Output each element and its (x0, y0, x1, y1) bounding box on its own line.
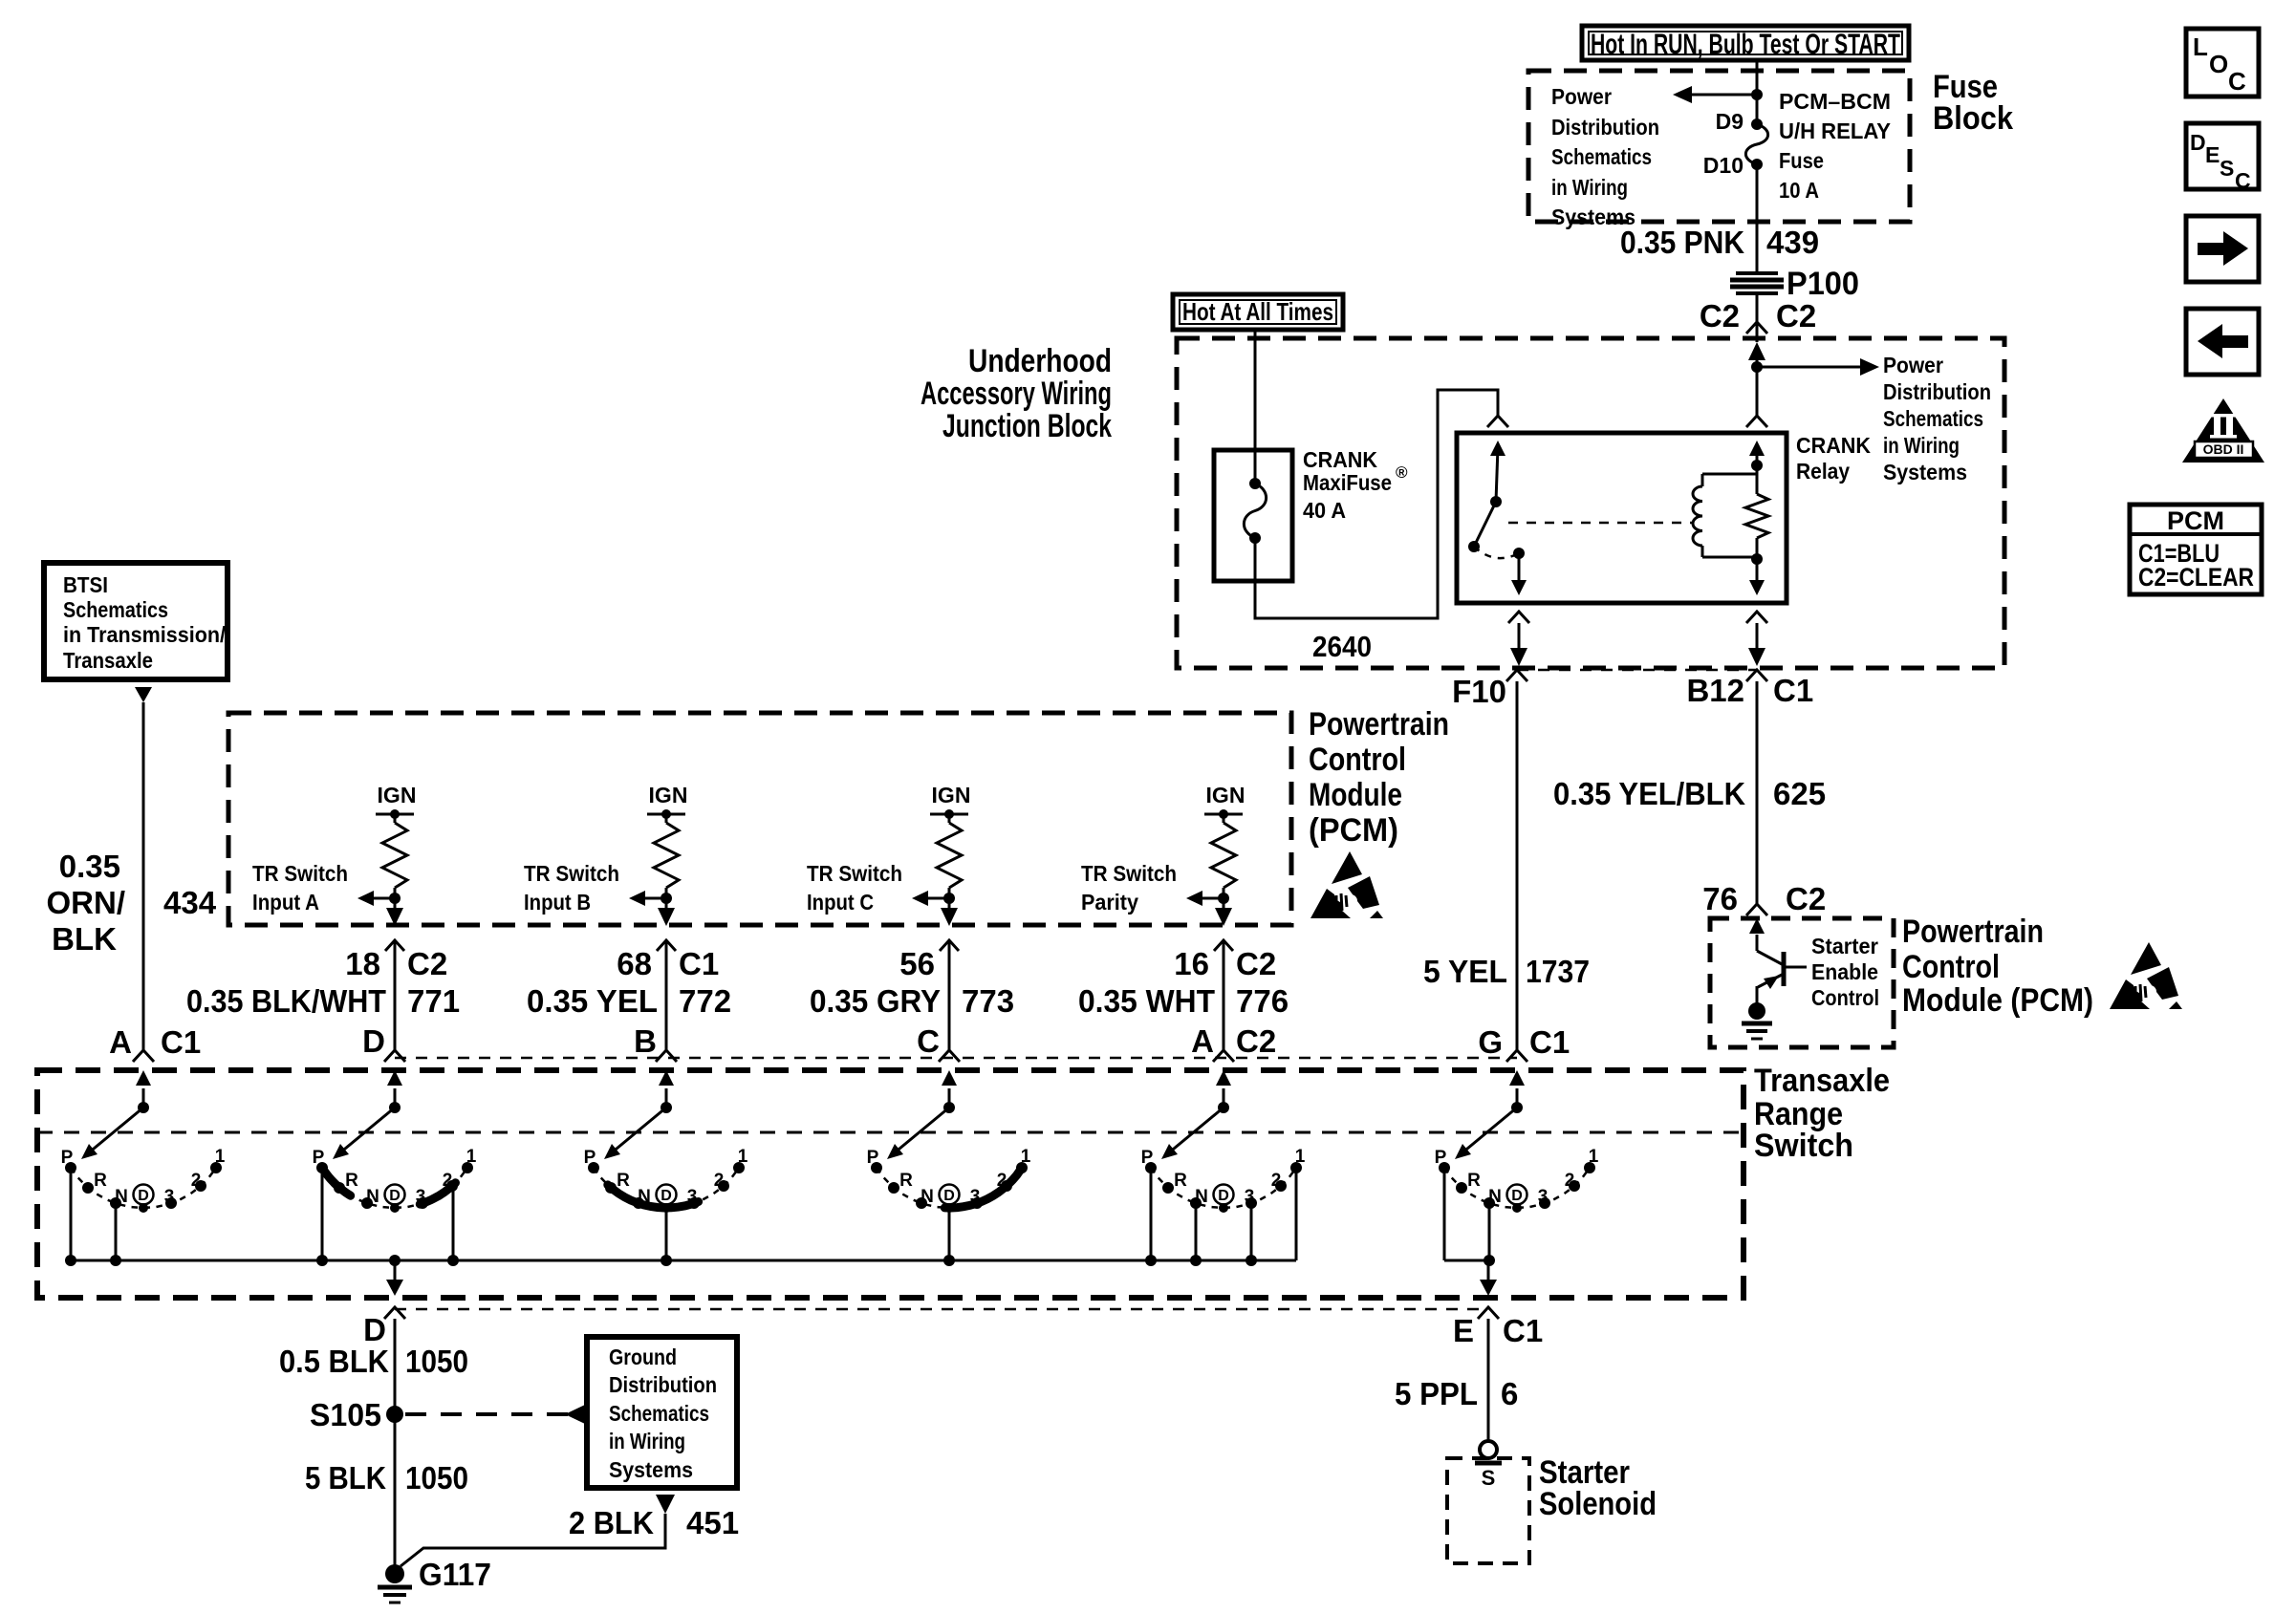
svg-text:in Wiring: in Wiring (1883, 433, 1960, 458)
svg-text:Transaxle: Transaxle (1754, 1063, 1890, 1099)
relay switch output contact (1511, 548, 1527, 595)
svg-text:Control: Control (1309, 742, 1406, 778)
svg-text:B: B (634, 1023, 657, 1059)
relay switch throw dashed arc (1474, 547, 1519, 558)
svg-text:Systems: Systems (609, 1457, 693, 1482)
wire C out of PCM (941, 898, 958, 926)
pullup resistor IGN column A (1204, 783, 1245, 898)
svg-text:Switch: Switch (1754, 1128, 1853, 1164)
svg-text:C1: C1 (1529, 1024, 1570, 1060)
wire F10 to transaxle switch (1516, 681, 1519, 1050)
svg-text:56: 56 (899, 946, 935, 981)
svg-text:in Wiring: in Wiring (1551, 175, 1628, 200)
label Powertrain Control Module (PCM) right (1902, 914, 2093, 1019)
connector E chevron bottom (1478, 1307, 1499, 1319)
svg-text:in Wiring: in Wiring (609, 1429, 685, 1453)
svg-text:Transaxle: Transaxle (63, 648, 153, 673)
svg-text:2: 2 (1565, 1171, 1575, 1191)
svg-text:R: R (617, 1171, 630, 1191)
connector terminal A chevron (1213, 1050, 1234, 1062)
svg-text:776: 776 (1236, 983, 1289, 1019)
svg-text:1: 1 (466, 1147, 477, 1167)
svg-text:S: S (1482, 1466, 1496, 1490)
svg-text:6: 6 (1501, 1376, 1518, 1411)
switch G bus wire (1444, 1259, 1488, 1262)
rotary switch C (867, 1070, 1031, 1266)
svg-text:0.35 PNK: 0.35 PNK (1620, 225, 1744, 260)
switch inner thin dashed rail (37, 1131, 1744, 1134)
connector pin 56 chevron (940, 940, 959, 951)
wire B out of PCM (658, 898, 675, 926)
svg-text:Underhood: Underhood (968, 343, 1112, 379)
svg-text:625: 625 (1773, 776, 1826, 811)
connector C2 chevron (1746, 322, 1767, 334)
svg-text:L: L (2193, 32, 2208, 61)
svg-text:Distribution: Distribution (1551, 115, 1659, 140)
wire 0.35 YEL 772 (665, 940, 668, 1050)
legend PCM connector colors (2130, 505, 2262, 594)
node junction fuse feed (1751, 89, 1763, 100)
svg-text:Module (PCM): Module (PCM) (1902, 982, 2093, 1019)
wire 0.35 BLK/WHT 771 (394, 940, 397, 1050)
svg-text:TR Switch: TR Switch (524, 861, 619, 886)
wire arrow to power distribution (left) (1673, 86, 1757, 103)
rotary switch A2 (1141, 1070, 1306, 1266)
wire label 0.35 YEL 772 (527, 983, 731, 1019)
label TR Switch Parity (1081, 861, 1177, 915)
arrow TR Switch Input C (912, 891, 949, 906)
svg-text:R: R (94, 1171, 107, 1191)
connector terminal D chevron (384, 1050, 405, 1062)
svg-text:D: D (1511, 1188, 1523, 1204)
label E C1 (1453, 1313, 1543, 1348)
svg-text:0.35 BLK/WHT: 0.35 BLK/WHT (186, 983, 386, 1019)
wire 0.35 GRY 773 (948, 940, 951, 1050)
fuse CRANK MaxiFuse element (1244, 478, 1266, 544)
rotary switch D (313, 1070, 477, 1266)
svg-text:PCM: PCM (2167, 506, 2224, 535)
svg-text:C2: C2 (407, 946, 447, 981)
svg-text:P100: P100 (1787, 266, 1859, 302)
pullup resistor IGN column C (930, 783, 970, 898)
icon LOC box (2186, 29, 2259, 97)
svg-text:Accessory Wiring: Accessory Wiring (921, 376, 1112, 412)
wire label 5 YEL 1737 (1423, 954, 1590, 989)
svg-text:1: 1 (215, 1147, 226, 1167)
svg-text:R: R (1174, 1171, 1187, 1191)
ground PCM internal (1742, 1002, 1772, 1039)
rotary switch G (1435, 1070, 1599, 1266)
svg-text:C2: C2 (1786, 881, 1826, 916)
relay coil (1693, 474, 1757, 557)
wire label 5 PPL 6 (1395, 1376, 1518, 1411)
svg-text:CRANK: CRANK (1796, 433, 1871, 458)
svg-text:3: 3 (1538, 1187, 1549, 1207)
node TR switch Parity tap (1218, 893, 1229, 904)
underhood junction block dashed box (1177, 338, 2004, 668)
wire C2 into junction block (1756, 322, 1759, 342)
svg-text:B12: B12 (1686, 673, 1744, 708)
svg-text:D: D (138, 1188, 149, 1204)
svg-text:5 PPL: 5 PPL (1395, 1376, 1478, 1411)
wire D out of PCM (386, 898, 403, 926)
svg-text:1: 1 (1589, 1147, 1599, 1167)
label 76 C2 (1702, 881, 1826, 916)
arrow TR Switch Input B (629, 891, 666, 906)
ESD sensitivity symbol (lower PCM) (2110, 942, 2182, 1009)
wire fuse block vertical (1756, 60, 1759, 124)
ground distribution reference box (587, 1337, 737, 1488)
svg-text:2 BLK: 2 BLK (569, 1505, 654, 1540)
wire label 0.35 ORN/BLK 434 (47, 849, 217, 957)
svg-text:D: D (389, 1188, 401, 1204)
connector pin 68 chevron (657, 940, 676, 951)
svg-text:D10: D10 (1703, 153, 1744, 178)
label Powertrain Control Module (PCM) upper (1309, 706, 1449, 849)
svg-text:1737: 1737 (1526, 954, 1590, 989)
fuse CRANK MaxiFuse box (1214, 450, 1292, 581)
connector A C1 chevron (133, 1050, 154, 1062)
svg-text:ORN/: ORN/ (47, 885, 126, 920)
connector rail thin dashed bottom (395, 1308, 1488, 1311)
svg-text:C2: C2 (1776, 298, 1816, 334)
icon OBD II triangle (2182, 398, 2264, 463)
wire label 0.35 WHT 776 (1078, 983, 1289, 1019)
label pin 68 C1 (617, 946, 719, 981)
wire label 0.35 YEL/BLK 625 (1553, 776, 1826, 811)
svg-text:Input B: Input B (524, 890, 591, 915)
svg-text:R: R (1467, 1171, 1481, 1191)
svg-text:18: 18 (345, 946, 380, 981)
icon left-arrow box (2186, 309, 2259, 375)
svg-text:C: C (917, 1023, 940, 1059)
ground G117 (378, 1557, 491, 1603)
svg-text:773: 773 (962, 983, 1014, 1019)
svg-text:N: N (366, 1187, 379, 1207)
label box Hot In RUN, Bulb Test Or START (1582, 26, 1909, 60)
svg-text:Junction Block: Junction Block (942, 408, 1112, 444)
svg-text:Schematics: Schematics (1883, 406, 1983, 431)
wire E to starter solenoid (1487, 1319, 1490, 1441)
svg-text:1: 1 (1021, 1147, 1031, 1167)
wire 2 BLK 451 (401, 1514, 665, 1566)
connector terminal B chevron (656, 1050, 677, 1062)
svg-text:N: N (921, 1187, 934, 1207)
svg-text:PCM–BCM: PCM–BCM (1779, 89, 1891, 114)
wire fuse block to P100 (1756, 164, 1759, 272)
label Fuse Block (1933, 69, 2013, 137)
connector 76 C2 chevron (1746, 904, 1767, 915)
connector B12 chevron (1746, 670, 1767, 681)
fuse block dashed box (1528, 71, 1910, 222)
connector D chevron bottom (384, 1307, 405, 1319)
svg-text:Module: Module (1309, 777, 1402, 813)
svg-text:BTSI: BTSI (63, 572, 108, 597)
svg-text:F10: F10 (1452, 674, 1506, 709)
svg-text:439: 439 (1766, 225, 1819, 260)
svg-text:Parity: Parity (1081, 890, 1138, 915)
svg-text:2: 2 (191, 1171, 202, 1191)
svg-text:0.35: 0.35 (59, 849, 120, 884)
svg-text:3: 3 (1245, 1187, 1255, 1207)
svg-text:2: 2 (714, 1171, 725, 1191)
svg-text:3: 3 (164, 1187, 175, 1207)
svg-text:C2: C2 (1236, 1023, 1276, 1059)
wire P100 to C2 connector (1756, 293, 1759, 322)
label TR Switch Input A (252, 861, 348, 915)
svg-text:TR Switch: TR Switch (807, 861, 902, 886)
svg-text:Schematics: Schematics (609, 1401, 709, 1426)
svg-text:R: R (899, 1171, 913, 1191)
svg-text:CRANK: CRANK (1303, 447, 1377, 472)
transistor Q1 starter enable (1757, 951, 1807, 989)
starter solenoid dashed box (1447, 1458, 1529, 1563)
wire maxifuse to crank relay (1255, 390, 1498, 618)
svg-text:E: E (2205, 142, 2220, 167)
label Underhood Accessory Wiring Junction Block (921, 343, 1112, 444)
node TR switch Input C tap (943, 893, 955, 904)
svg-text:Solenoid: Solenoid (1539, 1486, 1657, 1522)
svg-text:R: R (345, 1171, 358, 1191)
arrow up at junction block entry (1748, 342, 1765, 367)
label A C1 (109, 1024, 201, 1060)
svg-text:451: 451 (686, 1505, 739, 1540)
arrow TR Switch Parity (1186, 891, 1224, 906)
svg-text:S: S (2220, 156, 2234, 181)
svg-text:Hot In RUN, Bulb Test Or START: Hot In RUN, Bulb Test Or START (1591, 29, 1900, 60)
svg-text:Input C: Input C (807, 890, 874, 915)
dashed reference S105 to ground distribution (405, 1405, 585, 1424)
rotary switch B (584, 1070, 748, 1266)
wire D to G117 (394, 1319, 397, 1568)
relay mechanical link dashed (1508, 522, 1694, 525)
svg-text:Control: Control (1811, 985, 1879, 1010)
svg-text:D: D (363, 1312, 386, 1347)
wire label 5 BLK 1050 (305, 1460, 468, 1496)
svg-text:Power: Power (1551, 84, 1612, 109)
wire BTSI to transaxle switch (142, 702, 145, 1050)
svg-text:IGN: IGN (1206, 783, 1245, 807)
svg-text:Hot At All Times: Hot At All Times (1182, 297, 1333, 326)
svg-text:434: 434 (163, 885, 217, 920)
svg-text:C: C (2228, 67, 2246, 96)
relay CRANK box (1457, 433, 1787, 603)
connector pin 16 chevron (1214, 940, 1233, 951)
wire A out of PCM (1215, 898, 1232, 926)
label terminal D (362, 1023, 385, 1059)
svg-text:Block: Block (1933, 100, 2013, 137)
svg-text:IGN: IGN (378, 783, 417, 807)
node S105 splice (310, 1397, 403, 1432)
svg-text:Control: Control (1902, 949, 2000, 985)
wire label 0.35 GRY 773 (810, 983, 1014, 1019)
wire arrow to power distribution schematics (right) (1757, 358, 1879, 376)
svg-text:D: D (661, 1188, 672, 1204)
svg-text:76: 76 (1702, 881, 1738, 916)
transaxle range switch dashed box (37, 1070, 1744, 1298)
svg-text:G: G (1478, 1024, 1503, 1060)
wire B12 to PCM (1756, 681, 1759, 904)
label G C1 (1478, 1024, 1570, 1060)
svg-text:Distribution: Distribution (609, 1372, 717, 1397)
arrow from ground distribution box (656, 1495, 675, 1514)
switch D output arrow (386, 1260, 403, 1296)
svg-text:C1: C1 (1773, 673, 1813, 708)
relay switch arm (1468, 441, 1505, 552)
svg-text:5 BLK: 5 BLK (305, 1460, 386, 1496)
note Power Distribution Schematics in Wiring Systems (fuse block) (1551, 84, 1659, 229)
wire hot-at-all-times down to maxifuse (1254, 330, 1257, 484)
svg-text:P: P (1141, 1148, 1154, 1168)
node TR switch Input A tap (389, 893, 401, 904)
node junction power distribution tap (1751, 361, 1763, 373)
wire label 0.5 BLK 1050 (279, 1344, 468, 1379)
PCM dashed box (228, 713, 1291, 925)
svg-text:D: D (943, 1188, 955, 1204)
icon DESC box (2186, 123, 2259, 193)
svg-text:D: D (1218, 1188, 1229, 1204)
icon right-arrow box (2186, 216, 2259, 282)
svg-text:771: 771 (407, 983, 460, 1019)
wire label 0.35 PNK 439 (1620, 225, 1819, 260)
svg-text:TR Switch: TR Switch (1081, 861, 1177, 886)
svg-text:1: 1 (738, 1147, 748, 1167)
svg-text:0.35 GRY: 0.35 GRY (810, 983, 941, 1019)
connector F10 chevron (1506, 670, 1527, 681)
svg-text:P: P (1435, 1148, 1447, 1168)
svg-text:0.35 YEL: 0.35 YEL (527, 983, 658, 1019)
relay right output arrow (1749, 559, 1765, 595)
svg-text:A: A (1191, 1023, 1214, 1059)
wire label 0.35 BLK/WHT 771 (186, 983, 460, 1019)
svg-text:E: E (1453, 1313, 1474, 1348)
svg-text:P: P (584, 1148, 596, 1168)
label Starter Enable Control (1811, 934, 1879, 1010)
label TR Switch Input C (807, 861, 902, 915)
svg-text:C2: C2 (1700, 298, 1740, 334)
svg-text:U/H RELAY: U/H RELAY (1779, 118, 1891, 143)
connector chevron above crank relay right (1746, 416, 1767, 427)
connector chevron above crank relay left (1487, 416, 1508, 427)
arrow from BTSI box (135, 687, 152, 702)
svg-text:C2: C2 (1236, 946, 1276, 981)
svg-text:2640: 2640 (1312, 630, 1372, 663)
note Power Distribution Schematics in Wiring Systems (junction block) (1883, 353, 1991, 484)
label pin 56 (899, 946, 935, 981)
PCM starter enable dashed box (1710, 918, 1894, 1047)
svg-text:C: C (2235, 168, 2251, 193)
svg-text:40 A: 40 A (1303, 498, 1346, 523)
svg-text:®: ® (1396, 463, 1408, 482)
svg-text:2: 2 (1271, 1171, 1282, 1191)
node TR switch Input B tap (661, 893, 672, 904)
svg-text:A: A (109, 1024, 132, 1060)
arrow up relay right entry (1749, 441, 1765, 456)
svg-text:MaxiFuse: MaxiFuse (1303, 470, 1392, 495)
starter solenoid S terminal (1475, 1441, 1502, 1490)
svg-text:OBD II: OBD II (2203, 441, 2244, 457)
arrow TR Switch Input A (357, 891, 395, 906)
ESD sensitivity symbol (upper PCM) (1310, 851, 1383, 918)
svg-text:Fuse: Fuse (1779, 148, 1824, 173)
wire label 2 BLK 451 (569, 1505, 739, 1540)
label terminal B (634, 1023, 657, 1059)
pin D10 (1703, 153, 1763, 178)
connector pin 18 chevron (385, 940, 404, 951)
connector terminal C chevron (939, 1050, 960, 1062)
label B12 C1 (1686, 673, 1813, 708)
svg-text:P: P (61, 1148, 74, 1168)
svg-text:TR Switch: TR Switch (252, 861, 348, 886)
label Starter Solenoid (1539, 1454, 1657, 1522)
svg-text:0.35 WHT: 0.35 WHT (1078, 983, 1215, 1019)
label TR Switch Input B (524, 861, 619, 915)
label Transaxle Range Switch (1754, 1063, 1890, 1164)
svg-text:C1: C1 (679, 946, 719, 981)
svg-text:Powertrain: Powertrain (1309, 706, 1449, 742)
BTSI reference box (44, 563, 227, 679)
label pin 18 C2 (345, 946, 447, 981)
wire relay left to junction block edge (1510, 623, 1527, 666)
switch G output arrow (1480, 1260, 1497, 1296)
svg-text:10 A: 10 A (1779, 178, 1819, 203)
connector chevron below relay left (1508, 612, 1529, 623)
rotary switch A (61, 1070, 226, 1266)
svg-text:G117: G117 (419, 1557, 491, 1592)
svg-text:Powertrain: Powertrain (1902, 914, 2044, 950)
label terminal A C2 (1191, 1023, 1276, 1059)
svg-text:IGN: IGN (649, 783, 688, 807)
svg-text:C2=CLEAR: C2=CLEAR (2138, 563, 2254, 592)
svg-text:D9: D9 (1716, 109, 1744, 134)
label CRANK Relay (1796, 433, 1871, 484)
svg-text:1050: 1050 (405, 1460, 468, 1496)
svg-text:0.5 BLK: 0.5 BLK (279, 1344, 389, 1379)
svg-text:Systems: Systems (1883, 460, 1967, 484)
pullup resistor IGN column D (376, 783, 416, 898)
svg-text:P: P (867, 1148, 879, 1168)
connector P100 grommet (1730, 273, 1784, 293)
svg-text:Starter: Starter (1811, 934, 1878, 958)
svg-text:Schematics: Schematics (1551, 144, 1652, 169)
connector G C1 chevron (1506, 1050, 1527, 1062)
svg-text:(PCM): (PCM) (1309, 812, 1398, 849)
svg-text:S105: S105 (310, 1397, 381, 1432)
wire emitter to ground (1756, 986, 1759, 1005)
wire relay right to junction block edge (1748, 623, 1765, 666)
svg-text:Power: Power (1883, 353, 1943, 377)
svg-text:BLK: BLK (52, 921, 117, 957)
svg-text:Input A: Input A (252, 890, 319, 915)
relay coil resistor (1745, 447, 1768, 565)
svg-text:Relay: Relay (1796, 459, 1850, 484)
svg-text:Enable: Enable (1811, 959, 1878, 984)
wire collector with arrow up (1749, 918, 1765, 951)
svg-text:O: O (2209, 50, 2228, 78)
svg-text:C1: C1 (161, 1024, 201, 1060)
svg-text:D: D (2190, 130, 2206, 155)
svg-text:0.35 YEL/BLK: 0.35 YEL/BLK (1553, 776, 1745, 811)
svg-text:Schematics: Schematics (63, 597, 168, 622)
svg-text:1: 1 (1295, 1147, 1306, 1167)
fuse PCM-BCM U/H RELAY 10A element (1745, 124, 1767, 164)
svg-text:5 YEL: 5 YEL (1423, 954, 1507, 989)
label PCM-BCM U/H RELAY Fuse 10 A (1779, 89, 1891, 203)
label C2 C2 pair (1700, 298, 1816, 334)
svg-text:Ground: Ground (609, 1345, 677, 1369)
wire junction tap down to relay connector (1756, 367, 1759, 416)
switch common bus wire (71, 1259, 1296, 1262)
